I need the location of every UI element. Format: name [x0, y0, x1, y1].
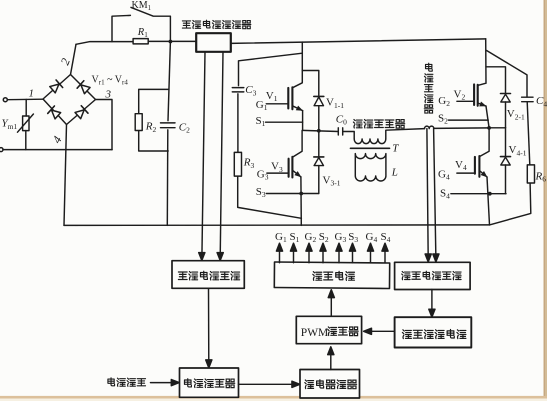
wire: CT sense line 1 — [427, 129, 428, 259]
wire: V3 emitter down to DC- rail — [300, 177, 302, 226]
block: PWM controller (PWM控制器) — [296, 316, 361, 343]
svg-text:T: T — [392, 143, 399, 155]
resistor R3 — [234, 152, 241, 176]
block text 电流调节器 — [184, 379, 191, 387]
wire: primary to CT / right leg midpoint — [386, 128, 489, 139]
IGBT V4 collector from midpoint — [479, 128, 489, 157]
terminal: AC input top — [3, 98, 7, 102]
wire: S4 lead + diode V4-1 bottom — [451, 193, 506, 195]
diode V3-1 (anti-parallel) — [318, 131, 320, 157]
wire: V1 emitter down — [302, 111, 304, 131]
wire: branch to diode V2-1 — [486, 67, 506, 93]
block text 逆变电流采样 — [402, 271, 410, 279]
svg-text:PWM: PWM — [301, 327, 328, 339]
capacitor C4 — [522, 97, 534, 102]
block text 直流电流采样 — [178, 272, 187, 280]
IGBT V4 — [475, 156, 480, 177]
transformer T primary winding — [354, 139, 386, 144]
wire: G2 gate lead — [457, 100, 474, 102]
diode bridge arm Vr2 (node3->node2) — [77, 81, 90, 95]
wire: junction down to C2 column — [167, 42, 170, 226]
capacitor C2 — [161, 123, 176, 128]
resistor R6 — [527, 165, 534, 183]
block: pulse distributor (脉冲分配器) — [300, 370, 360, 399]
wire: C4/R6 column — [487, 51, 531, 225]
wire — [7, 98, 43, 101]
svg-text:3: 3 — [105, 89, 112, 101]
block text 控制器 (of PWM控制器) — [328, 327, 337, 336]
terminal: AC input bottom — [0, 148, 3, 152]
value label 直流电流传感器 (DC current sensor) — [182, 21, 190, 28]
wire: C0 to primary — [343, 132, 355, 140]
svg-text:1: 1 — [29, 88, 35, 100]
value label 谐振变压器 (resonant transformer) — [353, 119, 362, 128]
wire: S3 lead + to diode V3-1 bottom — [266, 193, 319, 195]
block text 频率跟踪电路 — [402, 330, 411, 339]
switch KM1 (bypass contactor) — [112, 7, 170, 41]
wire: node2 up to DC+ rail — [71, 44, 77, 74]
wire: DC- bottom rail — [64, 224, 490, 227]
IGBT V3 — [289, 157, 293, 178]
wire: bottom AC line — [3, 149, 112, 151]
varistor Ym1 — [18, 100, 34, 150]
current transformer (电流互感器) pickup loops — [425, 126, 434, 129]
diode bridge arm Vr3 (node4->node1) — [48, 106, 61, 120]
wire: V2 emitter down to midpoint — [486, 106, 489, 128]
wire: V4 emitter down to DC- rail — [487, 177, 490, 225]
svg-text:L: L — [391, 166, 398, 178]
wire: R1 to DC sensor — [148, 40, 196, 42]
wire: DC+ rail, sensor to right bridge leg — [231, 39, 486, 44]
wire: DC sampling to current regulator — [208, 288, 210, 364]
transformer secondary / load coil L — [355, 154, 386, 181]
wire: G4 gate lead — [457, 172, 475, 174]
wire: node3 to bottom AC line — [96, 100, 113, 150]
wire: C3/R3 snubber column — [238, 53, 303, 218]
resistor R1 — [133, 39, 148, 44]
wire: regulator to pulse distributor — [239, 383, 297, 385]
wire: pulse distributor to PWM — [330, 350, 332, 370]
wire: left leg midpoint to C0 — [303, 130, 339, 131]
wire: G3 gate lead — [267, 172, 289, 174]
wire: DC+ rail from node2 to R1 — [76, 42, 133, 45]
DC current sensor box (直流电流传感器) — [196, 33, 231, 52]
diode bridge arm Vr1 (node1->node2) — [49, 80, 62, 94]
diode V2-1 (anti-parallel) — [501, 93, 511, 95]
transformer core — [351, 147, 390, 149]
wire: branch to diode V1-1 — [302, 71, 319, 97]
IGBT V2 — [474, 84, 478, 105]
diode bridge arm Vr4 (node4->node3) — [75, 106, 88, 120]
diode V4-1 (anti-parallel) — [505, 128, 507, 157]
diode V1-1 (anti-parallel) — [314, 95, 324, 97]
IGBT V3 emitter w/ arrow — [292, 170, 301, 177]
block text 驱动电路 — [313, 272, 322, 281]
wire: node4 down to DC- rail (crosses AC line) — [64, 125, 67, 226]
capacitor C0 — [338, 128, 342, 135]
IGBT V1 collector rail — [293, 42, 303, 88]
wire: sensor sense line 2 to DC sampling — [220, 52, 223, 257]
wire: CT sense line 2 — [434, 129, 436, 259]
wire: S2 lead — [449, 119, 489, 121]
IGBT V1 emitter w/ arrow — [292, 106, 302, 111]
wire: PWM to drive circuit — [330, 293, 332, 317]
wire: S1 lead — [266, 121, 303, 123]
junction: S3/emitter — [299, 192, 303, 196]
block: frequency tracking circuit (频率跟踪电路) — [395, 317, 472, 347]
wire: midpoint extension to V2-1 — [489, 127, 505, 129]
wire: sensor sense line 1 to DC sampling — [202, 52, 205, 257]
rectifier bridge V_r1..V_r4 : diamond — [43, 75, 96, 125]
IGBT V1 — [288, 87, 292, 109]
wire: freq tracking to PWM — [367, 330, 395, 332]
capacitor C3 — [232, 88, 244, 92]
junction: V1-1/midpoint — [317, 129, 321, 133]
wire: G1 gate lead — [266, 103, 288, 105]
junction: R1/KM1/C2 node — [169, 40, 173, 44]
wires: drive outputs G1 S1 G2 S2 G3 S3 G4 S4 — [279, 247, 281, 263]
label 电流给定 (current reference) — [108, 378, 115, 386]
value label 电流互感器 (current transformer, vertical) — [426, 63, 433, 71]
resistor R2 branch — [139, 89, 169, 151]
block: inverter current sampling (逆变电流采样) — [395, 262, 471, 289]
block: current regulator (电流调节器) — [180, 368, 239, 397]
junction: S4/emitter — [488, 192, 492, 196]
block: DC current sampling (直流电流采样) — [172, 261, 244, 289]
wire: current reference input — [151, 382, 177, 384]
IGBT V2 emitter w/ arrow — [478, 103, 486, 106]
block text 脉冲分配器 — [305, 380, 314, 389]
junction: right leg midpoint — [487, 126, 491, 130]
IGBT V4 emitter w/ arrow — [479, 171, 487, 178]
IGBT V3 collector from midpoint — [293, 131, 302, 158]
block: drive circuit (驱动电路) — [274, 262, 389, 289]
wire: inverter sampling to freq tracking — [431, 290, 433, 314]
wire: DC+ rail corner down (V2 collector rail) — [478, 39, 486, 86]
